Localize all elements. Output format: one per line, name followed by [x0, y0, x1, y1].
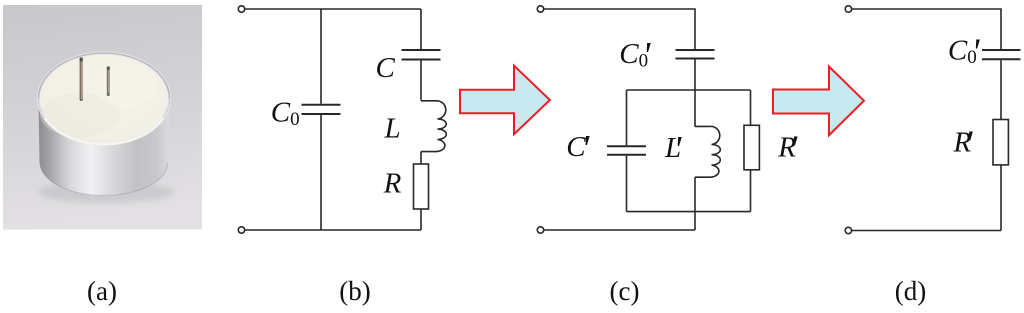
arrow (b) to (c) [460, 66, 550, 135]
wire (b) right branch upper [420, 9, 422, 49]
photo of ultrasonic transducer (a) [3, 5, 202, 230]
svg-text:R': R' [953, 124, 974, 166]
svg-text:C0': C0' [948, 31, 980, 73]
arrow (c) to (d) [773, 67, 864, 136]
inductor L' [695, 126, 720, 177]
wire (c) box right edge upper [750, 90, 752, 125]
svg-text:C0': C0' [619, 35, 651, 77]
wire (b) R to bottom [420, 209, 422, 230]
wire (d) top [852, 9, 1001, 49]
wire (d) R' to bottom [1000, 165, 1002, 231]
terminal (c) top [537, 6, 543, 12]
wire (d) bottom [852, 230, 1001, 232]
svg-text:L: L [384, 113, 401, 145]
wire (c) box bottom edge [627, 211, 751, 213]
terminal (b) bottom [238, 227, 244, 233]
inductor L [421, 101, 446, 152]
svg-text:(d): (d) [895, 276, 926, 306]
wire (b) bottom [245, 229, 421, 231]
wire (b) C0 branch upper [320, 9, 322, 104]
wire (c) box left edge upper [626, 90, 628, 145]
wire (b) C to L [420, 61, 422, 101]
svg-text:R': R' [777, 129, 798, 171]
capacitor C' [607, 146, 646, 154]
svg-text:C0: C0 [271, 96, 300, 130]
wire (b) L to R [420, 152, 422, 164]
wire (c) bottom [544, 229, 695, 231]
wire (c) L' to bottom [694, 177, 696, 230]
svg-text:(a): (a) [87, 276, 117, 306]
svg-text:(b): (b) [339, 276, 370, 306]
svg-text:C: C [376, 52, 396, 84]
capacitor C [402, 50, 441, 60]
capacitor C0' (d) [982, 50, 1021, 59]
resistor R' (c) [744, 125, 759, 170]
resistor R [414, 164, 429, 209]
terminal (d) top [845, 6, 851, 12]
terminal (c) bottom [537, 227, 543, 233]
wire (b) C0 branch lower [320, 115, 322, 230]
terminal (b) top [238, 6, 244, 12]
svg-text:C': C' [566, 128, 590, 170]
capacitor C0' [676, 50, 715, 59]
wire (c) box top edge [627, 89, 751, 91]
wire (c) box right edge lower [750, 170, 752, 212]
capacitor C0 [302, 105, 341, 114]
wire (d) C0' to R' [1000, 60, 1002, 119]
wire (c) top [544, 9, 695, 49]
terminal (d) bottom [845, 227, 851, 233]
wire (c) box left edge lower [626, 156, 628, 212]
svg-text:R: R [383, 168, 402, 200]
wire (c) C0' to box [694, 60, 696, 127]
wire (b) top [245, 8, 421, 10]
svg-text:L': L' [664, 129, 682, 171]
svg-text:(c): (c) [610, 276, 640, 306]
resistor R' (d) [993, 120, 1008, 165]
